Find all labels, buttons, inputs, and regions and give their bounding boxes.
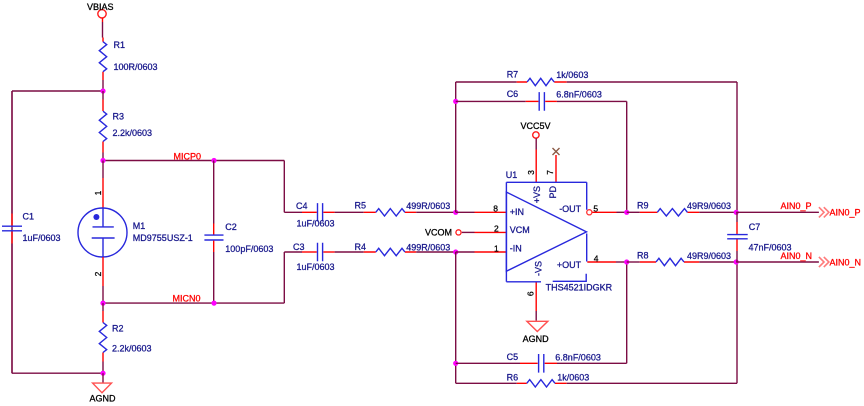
svg-text:C5: C5 xyxy=(507,352,519,362)
wire C4 to R5 xyxy=(335,211,364,213)
wire feedback left vertical bottom xyxy=(455,252,457,383)
pin 5 -OUT stub xyxy=(592,211,617,213)
svg-text:6.8nF/0603: 6.8nF/0603 xyxy=(555,353,601,363)
junction MICP0 at R3 xyxy=(100,158,105,163)
capacitor C5 xyxy=(456,354,627,373)
junction -OUT feedback node xyxy=(624,210,629,215)
svg-text:C1: C1 xyxy=(23,212,35,222)
resistor R2 xyxy=(99,303,106,373)
pin 3 +VS stub xyxy=(535,150,537,183)
power symbol VBIAS xyxy=(87,2,114,18)
svg-text:MD9755USZ-1: MD9755USZ-1 xyxy=(133,233,193,243)
svg-text:R7: R7 xyxy=(507,70,519,80)
wire AIN0_P to offpage xyxy=(736,211,819,213)
power symbol VCC5V xyxy=(521,121,551,138)
svg-text:THS4521IDGKR: THS4521IDGKR xyxy=(546,283,613,293)
svg-text:1k/0603: 1k/0603 xyxy=(556,70,588,80)
pin 8 stub xyxy=(456,211,475,213)
wire VCC5V to pin3 xyxy=(535,138,537,149)
wire MICP0 down to C4 row xyxy=(283,161,285,213)
pin 1 stub xyxy=(456,251,475,253)
svg-text:8: 8 xyxy=(493,204,498,214)
no-connect X on pin 7 xyxy=(553,148,560,155)
resistor R6 xyxy=(456,380,737,387)
svg-text:MICP0: MICP0 xyxy=(174,152,202,162)
junction MICP0 at C2 xyxy=(211,158,216,163)
svg-text:R4: R4 xyxy=(355,242,367,252)
triangle xyxy=(506,192,586,271)
resistor R1 xyxy=(99,38,106,81)
svg-text:VCOM: VCOM xyxy=(425,228,452,238)
svg-text:R8: R8 xyxy=(637,250,649,260)
wire AIN0_N to offpage xyxy=(736,261,819,263)
resistor R5 xyxy=(364,209,417,216)
svg-text:2.2k/0603: 2.2k/0603 xyxy=(113,128,153,138)
junction node VBIAS/C1 xyxy=(100,88,105,93)
svg-text:R5: R5 xyxy=(355,200,367,210)
svg-text:C3: C3 xyxy=(293,242,305,252)
off-page connector AIN0_P xyxy=(819,207,861,217)
svg-text:5: 5 xyxy=(593,204,598,214)
capacitor C7 xyxy=(727,212,748,262)
wire MICN0 up to C3 row xyxy=(283,252,285,303)
resistor R4 xyxy=(364,248,417,255)
svg-text:R3: R3 xyxy=(113,112,125,122)
resistor R8 xyxy=(640,258,700,265)
svg-text:C4: C4 xyxy=(296,201,308,211)
wire MICN0 rail xyxy=(103,302,284,304)
svg-text:2.2k/0603: 2.2k/0603 xyxy=(112,344,152,354)
wire feedback left vertical top xyxy=(455,82,457,212)
svg-text:7: 7 xyxy=(545,170,555,175)
wire +OUT node to R8 xyxy=(627,261,640,263)
capacitor C3 xyxy=(284,243,334,261)
capacitor C2 xyxy=(204,161,223,304)
junction -IN node xyxy=(453,249,458,254)
wire MICP0 rail xyxy=(103,160,284,162)
wire C6 right vertical to -OUT node xyxy=(626,101,628,212)
svg-text:AIN0_P: AIN0_P xyxy=(781,201,812,211)
svg-text:1uF/0603: 1uF/0603 xyxy=(23,233,61,243)
svg-text:R9: R9 xyxy=(637,201,649,211)
junction MICN0 at C2 xyxy=(211,301,216,306)
wire left rail vertical xyxy=(11,91,13,373)
wire R3 to MICP0 xyxy=(102,153,104,161)
junction MICN0 at R2 xyxy=(100,301,105,306)
svg-text:VBIAS: VBIAS xyxy=(87,2,114,12)
wire bottom-left horizontal xyxy=(12,372,103,374)
junction C6 left xyxy=(453,99,458,104)
svg-text:M1: M1 xyxy=(133,221,146,231)
svg-text:2: 2 xyxy=(494,224,499,234)
wire node to R3 xyxy=(102,91,104,100)
svg-text:499R/0603: 499R/0603 xyxy=(406,201,450,211)
svg-text:-OUT: -OUT xyxy=(559,204,581,214)
output bubble pin 5 xyxy=(587,210,592,215)
svg-text:AIN0_P: AIN0_P xyxy=(830,208,861,218)
svg-text:+IN: +IN xyxy=(510,207,524,217)
svg-text:VCM: VCM xyxy=(510,225,530,235)
svg-text:1: 1 xyxy=(494,243,499,253)
wire -OUT node to R9 xyxy=(627,211,640,213)
body outline xyxy=(506,182,586,281)
junction bottom rail xyxy=(100,371,105,376)
svg-text:47nF/0603: 47nF/0603 xyxy=(749,242,792,252)
wire C3 to R4 xyxy=(335,251,364,253)
wire R1 to node xyxy=(102,80,104,91)
pin 7 PD stub xyxy=(555,155,557,182)
wire VBIAS to R1 xyxy=(102,18,104,22)
svg-text:AGND: AGND xyxy=(90,394,117,404)
capacitor C1 xyxy=(2,91,22,373)
svg-text:R6: R6 xyxy=(507,372,519,382)
capacitor C4 xyxy=(284,203,334,221)
junction C5 left xyxy=(453,361,458,366)
off-page connector VCOM xyxy=(425,228,461,238)
svg-text:C2: C2 xyxy=(225,222,237,232)
wire R5 to +IN node xyxy=(416,211,456,213)
svg-text:6.8nF/0603: 6.8nF/0603 xyxy=(556,90,602,100)
svg-text:U1: U1 xyxy=(506,170,518,180)
svg-text:1uF/0603: 1uF/0603 xyxy=(297,219,335,229)
svg-text:R2: R2 xyxy=(112,324,124,334)
wire R4 to -IN node xyxy=(416,251,456,253)
svg-text:3: 3 xyxy=(526,170,536,175)
svg-text:1uF/0603: 1uF/0603 xyxy=(297,262,335,272)
wire C5 right vertical to +OUT node xyxy=(626,262,628,363)
svg-text:1k/0603: 1k/0603 xyxy=(557,373,589,383)
resistor R9 xyxy=(640,209,700,216)
svg-text:1: 1 xyxy=(93,190,103,195)
wire R8 to AIN0_N node xyxy=(699,261,736,263)
svg-text:100pF/0603: 100pF/0603 xyxy=(225,244,273,254)
svg-text:49R9/0603: 49R9/0603 xyxy=(687,251,731,261)
svg-text:6: 6 xyxy=(525,291,535,296)
svg-text:2: 2 xyxy=(93,271,103,276)
ground AGND left xyxy=(90,373,117,403)
svg-text:49R9/0603: 49R9/0603 xyxy=(687,201,731,211)
off-page connector AIN0_N xyxy=(819,257,861,267)
junction +IN node xyxy=(453,210,458,215)
svg-text:AGND: AGND xyxy=(523,334,550,344)
wire R6 right vertical xyxy=(736,262,738,383)
pin 6 -VS stub xyxy=(535,282,537,311)
wire R9 to AIN0_P node xyxy=(699,211,736,213)
microphone M1 xyxy=(78,161,127,304)
svg-text:100R/0603: 100R/0603 xyxy=(114,62,158,72)
junction AIN0_N node xyxy=(734,259,739,264)
junction AIN0_P node xyxy=(734,210,739,215)
capacitor C6 xyxy=(456,92,627,111)
svg-text:499R/0603: 499R/0603 xyxy=(406,243,450,253)
svg-text:C6: C6 xyxy=(507,89,519,99)
op-amp U1 THS4521IDGKR xyxy=(456,150,627,312)
svg-text:R1: R1 xyxy=(114,40,126,50)
wire top-left horizontal xyxy=(12,90,103,92)
svg-text:C7: C7 xyxy=(749,222,761,232)
svg-text:+VS: +VS xyxy=(532,186,542,203)
svg-text:PD: PD xyxy=(548,185,558,198)
junction +OUT feedback node xyxy=(624,259,629,264)
svg-text:VCC5V: VCC5V xyxy=(521,121,551,131)
svg-text:-IN: -IN xyxy=(510,244,522,254)
svg-text:MICN0: MICN0 xyxy=(173,294,201,304)
svg-text:AIN0_N: AIN0_N xyxy=(830,257,862,267)
resistor R7 xyxy=(456,78,737,85)
ground AGND op-amp xyxy=(523,311,550,344)
resistor R3 xyxy=(99,100,106,153)
wire R7 right vertical xyxy=(736,82,738,212)
pin 4 +OUT stub xyxy=(587,261,616,263)
svg-text:+OUT: +OUT xyxy=(557,260,582,270)
svg-text:-VS: -VS xyxy=(534,261,544,276)
svg-text:4: 4 xyxy=(594,253,599,263)
pin 2 stub xyxy=(462,231,475,233)
